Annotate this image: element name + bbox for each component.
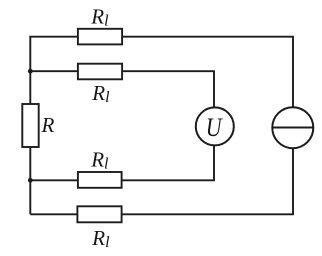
wire branch3 horizontal (30, 145, 214, 180)
junction node A (28, 69, 33, 74)
junction node B (28, 178, 33, 183)
svg-text:Rl: Rl (90, 4, 109, 29)
resistor R1 top (78, 29, 122, 45)
current source I1 circle (272, 107, 313, 148)
voltmeter U1 circle (196, 107, 234, 145)
svg-text:R: R (41, 113, 55, 137)
svg-text:U: U (206, 113, 224, 142)
resistor R2 second row (78, 64, 122, 80)
svg-text:Rl: Rl (91, 226, 110, 251)
svg-text:Rl: Rl (90, 147, 109, 172)
resistor R3 third row (78, 172, 122, 188)
svg-text:Rl: Rl (91, 81, 110, 106)
wire top from left corner to right corner (30, 37, 293, 215)
wire bottom loop (30, 148, 293, 214)
resistor R left vertical (22, 104, 38, 147)
wire branch2 horizontal (30, 71, 214, 108)
current source I1 bar (272, 127, 313, 129)
resistor R4 bottom (77, 206, 121, 222)
